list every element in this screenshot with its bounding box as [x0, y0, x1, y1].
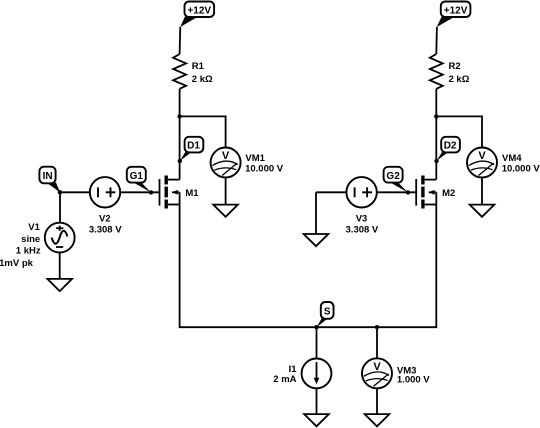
- svg-text:10.000 V: 10.000 V: [502, 163, 540, 174]
- svg-text:sine: sine: [21, 234, 40, 245]
- svg-text:2 kΩ: 2 kΩ: [192, 74, 213, 85]
- svg-text:M2: M2: [442, 188, 455, 199]
- svg-text:G1: G1: [130, 171, 144, 182]
- svg-text:IN: IN: [43, 171, 53, 182]
- svg-text:VM4: VM4: [502, 153, 522, 164]
- svg-text:R1: R1: [192, 61, 205, 72]
- svg-text:1mV pk: 1mV pk: [0, 258, 34, 269]
- svg-text:1 kHz: 1 kHz: [16, 245, 41, 256]
- svg-text:1.000 V: 1.000 V: [397, 375, 430, 386]
- svg-text:VM1: VM1: [245, 153, 265, 164]
- svg-text:3.308 V: 3.308 V: [89, 225, 122, 236]
- svg-text:V2: V2: [99, 213, 111, 224]
- svg-text:M1: M1: [185, 188, 199, 199]
- svg-text:V1: V1: [28, 222, 40, 233]
- svg-text:10.000 V: 10.000 V: [245, 163, 284, 174]
- svg-text:G2: G2: [386, 171, 400, 182]
- svg-text:D2: D2: [444, 141, 457, 152]
- svg-text:2 mA: 2 mA: [273, 374, 296, 385]
- svg-text:V3: V3: [356, 213, 368, 224]
- svg-text:3.308 V: 3.308 V: [346, 225, 379, 236]
- svg-text:D1: D1: [187, 141, 200, 152]
- svg-text:+12V: +12V: [187, 5, 211, 16]
- svg-text:S: S: [324, 307, 331, 318]
- svg-text:2 kΩ: 2 kΩ: [449, 74, 470, 85]
- svg-text:+12V: +12V: [444, 5, 468, 16]
- svg-text:R2: R2: [449, 61, 461, 72]
